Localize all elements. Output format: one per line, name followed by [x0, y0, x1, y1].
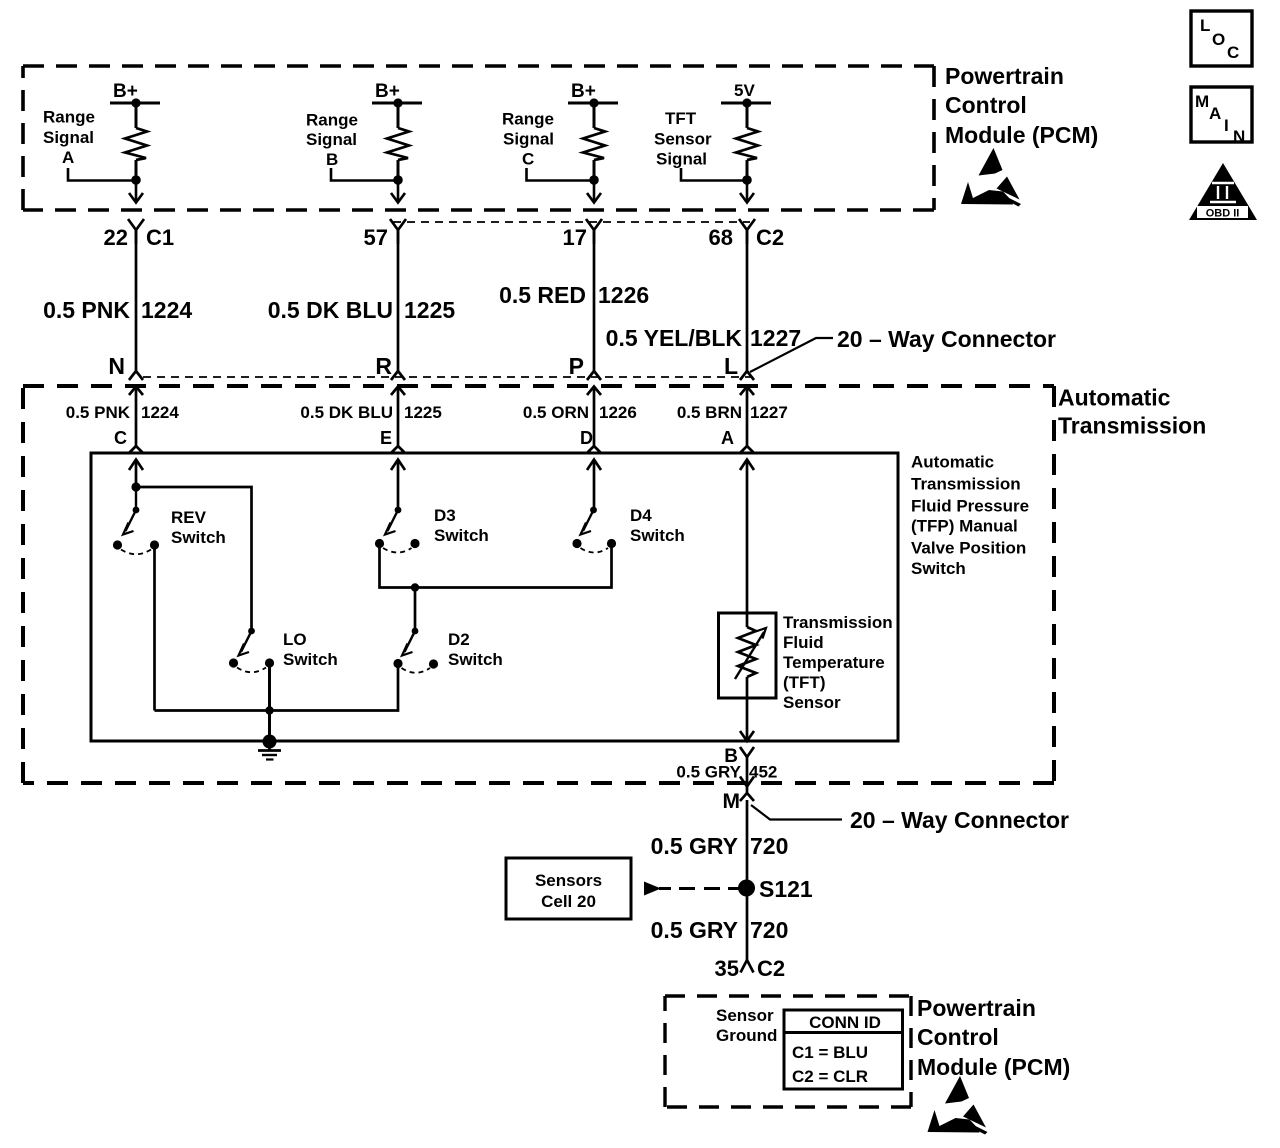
node 5V terminal bar 4 [721, 98, 771, 107]
svg-text:Signal: Signal [306, 130, 357, 149]
svg-text:0.5 DK BLU: 0.5 DK BLU [300, 403, 393, 422]
svg-text:P: P [569, 353, 584, 379]
wire TFT to pin B with down arrow [740, 698, 754, 741]
svg-text:Transmission: Transmission [783, 613, 893, 632]
power B+ supply 3 [571, 81, 596, 102]
svg-text:Sensor: Sensor [716, 1006, 774, 1025]
pin 68 female terminal [739, 219, 755, 244]
svg-text:Control: Control [945, 92, 1027, 118]
wire signal tap to junction 1 [68, 168, 136, 181]
node B+ terminal bar 1 [110, 98, 160, 107]
arrow down out of PCM 3 [587, 180, 601, 203]
wire label 0.5 BRN 1227 [677, 403, 788, 422]
svg-text:D4: D4 [630, 506, 652, 525]
svg-text:Cell 20: Cell 20 [541, 892, 596, 911]
svg-text:LO: LO [283, 630, 307, 649]
wire pin B to connector M with down arrow [740, 766, 754, 787]
svg-text:N: N [1233, 127, 1245, 146]
wire signal tap to junction 4 [681, 168, 747, 181]
wire segment circuit 1227 upper [746, 230, 749, 367]
arrow up inside box at A [740, 460, 754, 614]
wire bus REV/D2 (horizontal) [155, 666, 399, 711]
svg-text:Signal: Signal [43, 128, 94, 147]
Sensors Cell 20 reference box [506, 858, 631, 919]
svg-text:Automatic: Automatic [911, 453, 994, 472]
svg-text:O: O [1212, 30, 1225, 49]
svg-text:C2: C2 [757, 956, 785, 981]
pin number 17 [563, 225, 587, 250]
arrow up inside box at C [129, 460, 143, 488]
node junction REV branch [131, 482, 140, 491]
TFT sensor box [719, 613, 777, 698]
label Automatic Transmission [1058, 385, 1206, 439]
svg-text:L: L [1200, 16, 1210, 35]
wire resistor R1 to junction [135, 160, 138, 180]
svg-text:Ground: Ground [716, 1026, 777, 1045]
svg-text:Switch: Switch [283, 650, 338, 669]
wire label 0.5 YEL/BLK 1227 [606, 325, 802, 351]
node junction bus1 at LO wire [265, 706, 273, 714]
arrow up inside box at D [587, 460, 601, 510]
wire label 0.5 GRY 720 (upper) [651, 833, 789, 859]
svg-text:D3: D3 [434, 506, 456, 525]
switch LO [229, 628, 274, 673]
label pin letter E [380, 428, 392, 448]
label pin letter R [375, 353, 392, 379]
svg-text:A: A [1209, 104, 1221, 123]
svg-text:(TFP) Manual: (TFP) Manual [911, 517, 1018, 536]
label pin letter M [723, 790, 741, 813]
label Range Signal A [43, 108, 95, 168]
svg-text:0.5 PNK: 0.5 PNK [66, 403, 131, 422]
resistor R1 (pull-up) [125, 128, 147, 160]
PCM top dashed box [23, 66, 934, 210]
wire label 0.5 PNK 1224 [43, 297, 192, 323]
svg-text:Control: Control [917, 1024, 999, 1050]
svg-text:Fluid Pressure: Fluid Pressure [911, 497, 1029, 516]
svg-text:E: E [380, 428, 392, 448]
wire M to splice S121 to pin 35 [746, 800, 749, 962]
svg-text:720: 720 [750, 833, 788, 859]
svg-text:1227: 1227 [750, 325, 801, 351]
pin M male terminal [740, 787, 754, 801]
svg-text:Sensor: Sensor [654, 130, 712, 149]
wire resistor R3 to junction [593, 160, 596, 180]
svg-text:Range: Range [306, 111, 358, 130]
label pin letter B [724, 746, 738, 767]
svg-text:Switch: Switch [434, 526, 489, 545]
svg-text:OBD II: OBD II [1206, 208, 1240, 220]
svg-text:1226: 1226 [598, 282, 649, 308]
svg-text:1227: 1227 [750, 403, 788, 422]
TFP manual valve position switch box [91, 453, 898, 741]
svg-text:0.5 ORN: 0.5 ORN [523, 403, 589, 422]
node junction bus2 to D2 [411, 583, 419, 591]
wire label 0.5 GRY 720 (lower) [651, 917, 789, 943]
svg-text:Sensors: Sensors [535, 871, 602, 890]
resistor TFT thermistor [735, 613, 766, 698]
pin E male terminal into TFP switch [391, 446, 405, 453]
pin P male terminal [587, 367, 601, 380]
pin number 57 [364, 225, 388, 250]
arrow up into connector R [391, 387, 405, 447]
svg-text:Transmission: Transmission [911, 475, 1021, 494]
svg-text:1224: 1224 [141, 403, 179, 422]
svg-text:D: D [580, 428, 593, 448]
wire REV junction to LO switch feed [136, 487, 252, 631]
wire label 0.5 RED 1226 [499, 282, 649, 308]
svg-text:Signal: Signal [503, 130, 554, 149]
label pin 35 C2 [715, 956, 786, 981]
connector outline (thin dashed) bottom [143, 376, 753, 378]
leader 20-Way Connector (top) [750, 338, 833, 372]
svg-text:REV: REV [171, 508, 207, 527]
switch REV [113, 507, 159, 555]
pin N male terminal [129, 367, 143, 380]
svg-text:Transmission: Transmission [1058, 413, 1206, 439]
svg-text:M: M [723, 790, 741, 813]
svg-text:A: A [62, 148, 74, 167]
junction node 1 [131, 175, 141, 185]
svg-text:1225: 1225 [404, 297, 455, 323]
pin 35 male terminal [741, 960, 754, 973]
label D3 Switch [434, 506, 489, 545]
PCM bottom dashed box [665, 996, 911, 1107]
svg-text:720: 720 [750, 917, 788, 943]
svg-text:Fluid: Fluid [783, 633, 824, 652]
pin 57 female terminal [390, 219, 406, 244]
svg-text:C2: C2 [756, 225, 784, 250]
MAIN reference box [1191, 87, 1252, 146]
pin number labels 22 C1 [104, 225, 175, 250]
svg-text:0.5 GRY: 0.5 GRY [676, 763, 741, 782]
svg-text:0.5 RED: 0.5 RED [499, 282, 586, 308]
pin D male terminal into TFP switch [587, 446, 601, 453]
svg-text:L: L [724, 353, 738, 379]
wire label 0.5 PNK 1224 (lower) [66, 403, 180, 422]
arrow down out of PCM 2 [391, 180, 405, 203]
label Transmission Fluid Temperature (TFT) Sensor [783, 613, 893, 712]
label Range Signal C [502, 110, 554, 169]
junction node 3 [589, 175, 599, 185]
label pin letter N [108, 353, 125, 379]
svg-text:C2 = CLR: C2 = CLR [792, 1067, 868, 1086]
svg-text:Switch: Switch [630, 526, 685, 545]
svg-text:Switch: Switch [171, 528, 226, 547]
svg-text:S121: S121 [759, 876, 813, 902]
svg-text:C1 = BLU: C1 = BLU [792, 1043, 868, 1062]
wire label 0.5 GRY 452 [676, 763, 777, 782]
arrow down out of PCM 1 [129, 180, 143, 203]
svg-text:Range: Range [502, 110, 554, 129]
wire segment circuit 1226 upper [593, 230, 596, 367]
wire supply to resistor R1 [135, 103, 138, 128]
svg-text:(TFT): (TFT) [783, 673, 825, 692]
svg-text:1225: 1225 [404, 403, 442, 422]
svg-text:1224: 1224 [141, 297, 192, 323]
wire resistor R2 to junction [397, 160, 400, 180]
svg-text:0.5 GRY: 0.5 GRY [651, 917, 738, 943]
OBD II triangle symbol [1189, 163, 1257, 220]
label D4 Switch [630, 506, 685, 545]
junction node 2 [393, 175, 403, 185]
wire resistor R4 to junction [746, 160, 749, 180]
svg-text:Automatic: Automatic [1058, 385, 1171, 411]
pin 22 female terminal [128, 219, 144, 244]
svg-text:20 – Way Connector: 20 – Way Connector [850, 807, 1069, 833]
svg-text:Range: Range [43, 108, 95, 127]
label pin letter P [569, 353, 584, 379]
switch D4 [572, 507, 616, 553]
wire D3 left contact to bus2 [380, 547, 612, 588]
wire LO right contact down to ground [268, 666, 271, 741]
LOC reference box [1191, 11, 1252, 66]
svg-text:Powertrain: Powertrain [945, 63, 1064, 89]
label REV Switch [171, 508, 226, 547]
wire supply to resistor R2 [397, 103, 400, 128]
svg-text:0.5 DK BLU: 0.5 DK BLU [268, 297, 393, 323]
ESD sensitivity symbol (bottom PCM) [928, 1076, 988, 1135]
svg-text:Module (PCM): Module (PCM) [945, 122, 1098, 148]
ground (case ground of TFP switch) [258, 735, 281, 760]
svg-text:1226: 1226 [599, 403, 637, 422]
node B+ terminal bar 2 [372, 98, 422, 107]
wire label 0.5 DK BLU 1225 (lower) [300, 403, 441, 422]
label Range Signal B [306, 111, 358, 170]
switch D2 [393, 628, 438, 673]
pin A male terminal into TFP switch [740, 446, 754, 453]
svg-text:Switch: Switch [448, 650, 503, 669]
svg-text:20 – Way Connector: 20 – Way Connector [837, 326, 1056, 352]
svg-text:I: I [1224, 116, 1229, 135]
svg-text:N: N [108, 353, 125, 379]
arrow up into connector N [129, 387, 143, 447]
power 5V supply [734, 81, 755, 100]
svg-text:5V: 5V [734, 81, 755, 100]
label Powertrain Control Module (PCM) bottom [917, 995, 1070, 1080]
junction node 4 [742, 175, 752, 185]
svg-text:C: C [1227, 43, 1239, 62]
splice S121 [738, 880, 755, 897]
wire label 0.5 ORN 1226 [523, 403, 637, 422]
pin L male terminal [740, 367, 754, 380]
svg-text:22: 22 [104, 225, 128, 250]
svg-text:Sensor: Sensor [783, 693, 841, 712]
svg-text:0.5 PNK: 0.5 PNK [43, 297, 130, 323]
svg-text:57: 57 [364, 225, 388, 250]
wire label 0.5 DK BLU 1225 [268, 297, 456, 323]
svg-text:68: 68 [709, 225, 733, 250]
wire signal tap to junction 3 [527, 168, 595, 181]
label Sensor Ground [716, 1006, 777, 1045]
switch D3 [375, 507, 420, 553]
arrow up inside box at E [391, 460, 405, 510]
svg-text:0.5 GRY: 0.5 GRY [651, 833, 738, 859]
pin C male terminal into TFP switch [129, 446, 143, 453]
wire segment circuit 1224 upper [135, 230, 138, 367]
label pin letter L [724, 353, 738, 379]
svg-text:Powertrain: Powertrain [917, 995, 1036, 1021]
CONN ID table [784, 1010, 903, 1089]
resistor R4 (pull-up) [736, 128, 758, 160]
label Powertrain Control Module (PCM) top [945, 63, 1098, 148]
svg-text:A: A [721, 428, 734, 448]
connector C2 outline (thin dashed) top [393, 221, 750, 223]
resistor R2 (pull-up) [387, 128, 409, 160]
wire supply to resistor R3 [593, 103, 596, 128]
label pin letter A [721, 428, 734, 448]
arrow up into connector L [740, 387, 754, 447]
Automatic Transmission dashed box [23, 386, 1054, 783]
label D2 Switch [448, 630, 503, 669]
svg-text:B: B [326, 150, 338, 169]
arrow down out of PCM 4 [740, 180, 754, 203]
svg-text:C: C [114, 428, 127, 448]
label pin letter D [580, 428, 593, 448]
wire REV right contact down to bus [153, 548, 156, 711]
svg-text:CONN ID: CONN ID [809, 1013, 881, 1032]
svg-text:17: 17 [563, 225, 587, 250]
wire supply to resistor R4 [746, 103, 749, 128]
pin B female terminal [740, 747, 754, 766]
node B+ terminal bar 3 [568, 98, 618, 107]
leader 20-Way Connector (bottom) [751, 805, 842, 820]
svg-text:TFT: TFT [665, 109, 697, 128]
svg-text:0.5 BRN: 0.5 BRN [677, 403, 742, 422]
svg-text:Module (PCM): Module (PCM) [917, 1054, 1070, 1080]
wire signal tap to junction 2 [331, 168, 398, 181]
resistor R3 (pull-up) [583, 128, 605, 160]
svg-text:35: 35 [715, 956, 739, 981]
svg-text:R: R [375, 353, 392, 379]
label pin letter C [114, 428, 127, 448]
wire REV junction to pivot [135, 487, 137, 510]
svg-text:C1: C1 [146, 225, 174, 250]
svg-text:D2: D2 [448, 630, 470, 649]
svg-text:Valve Position: Valve Position [911, 539, 1026, 558]
svg-text:Signal: Signal [656, 150, 707, 169]
power B+ supply 2 [375, 81, 400, 102]
ESD sensitivity symbol (top PCM) [961, 148, 1021, 207]
wire bus2 junction down to D2 pivot [414, 588, 417, 632]
pin R male terminal [391, 367, 405, 380]
label LO Switch [283, 630, 338, 669]
wire segment circuit 1225 upper [397, 230, 400, 367]
svg-text:C: C [522, 150, 534, 169]
svg-text:M: M [1195, 92, 1209, 111]
svg-text:0.5 YEL/BLK: 0.5 YEL/BLK [606, 325, 743, 351]
pin number labels 68 C2 [709, 225, 785, 250]
label TFT Sensor Signal [654, 109, 712, 169]
pin 17 female terminal [586, 219, 602, 244]
power B+ supply 1 [113, 81, 138, 102]
svg-text:Switch: Switch [911, 559, 966, 578]
arrow up into connector P [587, 387, 601, 447]
svg-text:Temperature: Temperature [783, 653, 885, 672]
leader dashed to S121 with arrow [644, 882, 740, 896]
label TFP switch [911, 453, 1029, 579]
